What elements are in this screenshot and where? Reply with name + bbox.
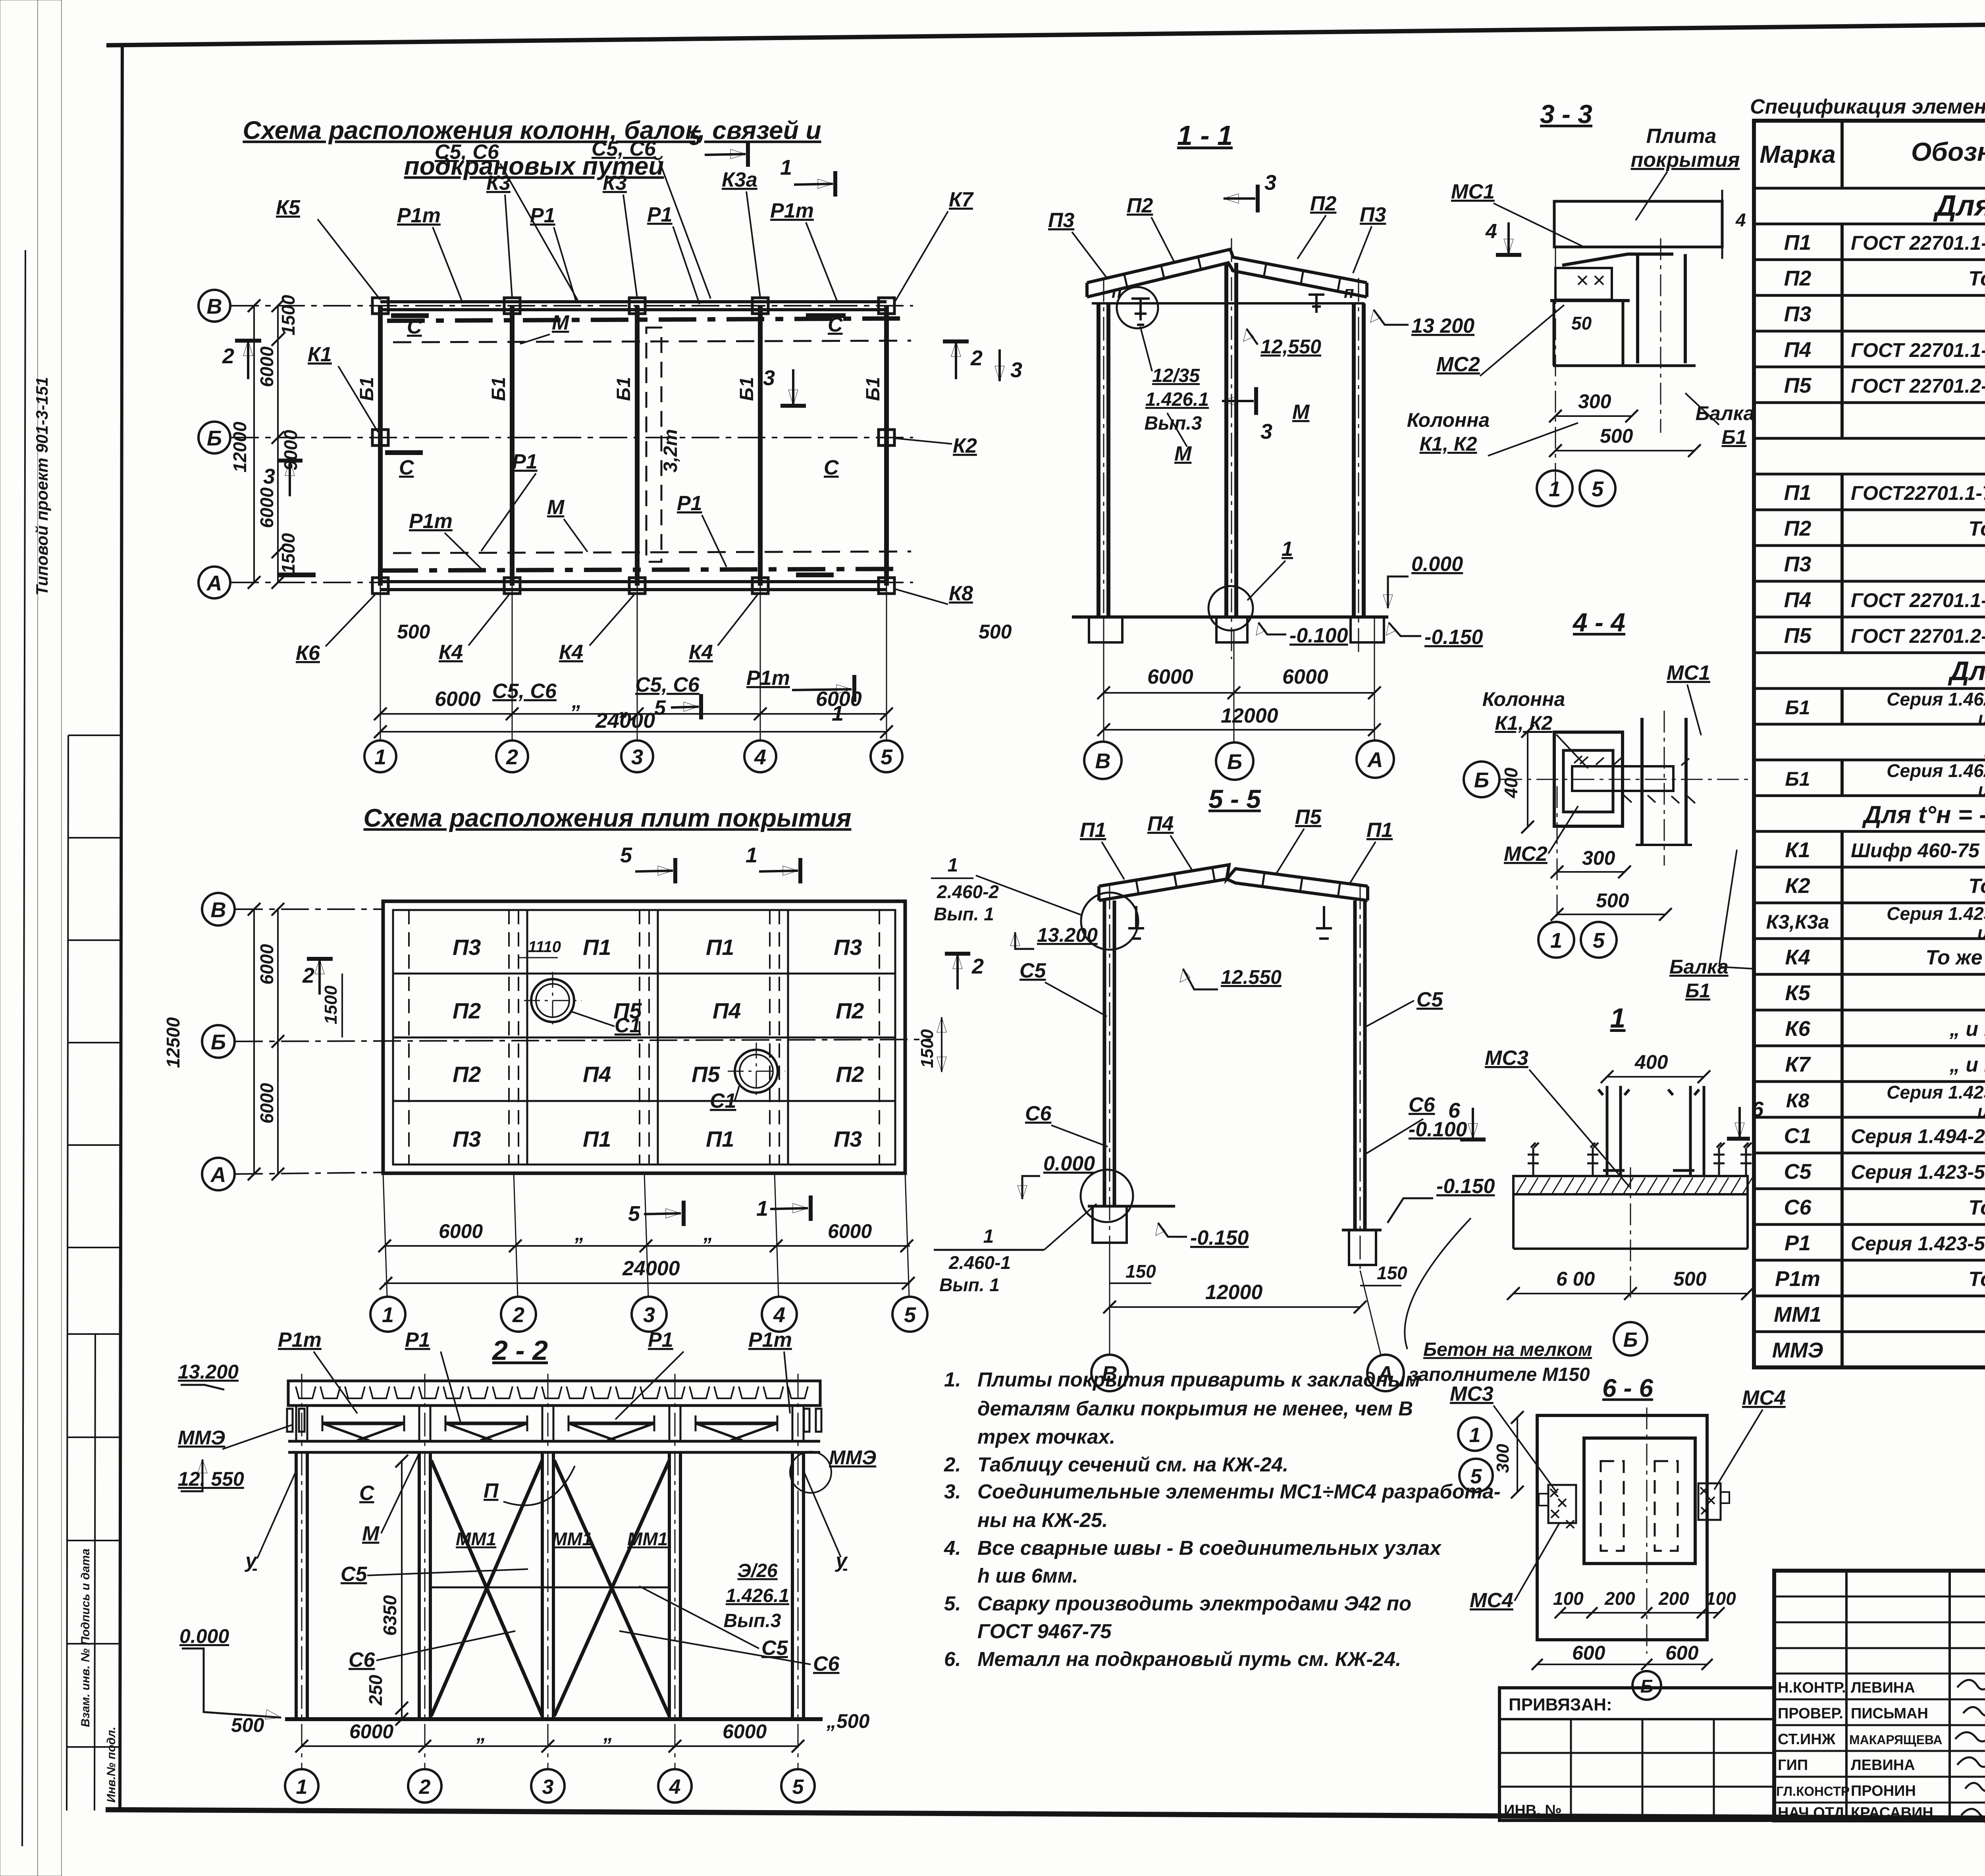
svg-text:4: 4 xyxy=(1485,220,1497,243)
section 5-5 axis extensions xyxy=(1109,1251,1110,1355)
section 2-2 axis circle 1 xyxy=(285,1769,318,1803)
svg-text:ММ1: ММ1 xyxy=(627,1529,668,1549)
svg-text:ПИСЬМАН: ПИСЬМАН xyxy=(1851,1705,1928,1722)
sheet edge line far left xyxy=(22,250,25,1846)
svg-text:1110: 1110 xyxy=(528,938,561,956)
svg-text:Б1: Б1 xyxy=(1785,768,1810,790)
section 3-3 dim 300 xyxy=(1555,415,1632,417)
svg-text:П1: П1 xyxy=(1784,481,1812,505)
svg-text:2 - 2: 2 - 2 xyxy=(491,1335,548,1366)
svg-text:500: 500 xyxy=(1600,425,1633,447)
svg-text:ГИП: ГИП xyxy=(1778,1757,1808,1774)
svg-text:1: 1 xyxy=(948,855,958,876)
svg-text:3: 3 xyxy=(763,366,775,390)
svg-text:Плита: Плита xyxy=(1646,125,1717,148)
svg-text:250: 250 xyxy=(365,1675,386,1706)
svg-text:300: 300 xyxy=(1578,390,1611,413)
plan2 slab row lines xyxy=(393,974,895,1101)
svg-text:ЛЕВИНА: ЛЕВИНА xyxy=(1851,1757,1915,1774)
section 1-1 right column xyxy=(1352,303,1356,617)
svg-text:0.000: 0.000 xyxy=(1043,1152,1095,1175)
svg-text:600: 600 xyxy=(1572,1642,1605,1664)
section 1-1 node circle at base xyxy=(1208,586,1253,630)
svg-text:Б: Б xyxy=(211,1030,226,1054)
svg-text:Серия 1.423-5 Вып. 3: Серия 1.423-5 Вып. 3 xyxy=(1851,1232,1985,1255)
section 5-5 hanger ties below roof xyxy=(1128,906,1144,939)
svg-text:ГОСТ 22701.1-77: ГОСТ 22701.1-77 xyxy=(1851,589,1985,611)
section 2-2 axis circle 2 xyxy=(408,1769,441,1803)
svg-text:600: 600 xyxy=(1665,1642,1699,1664)
section 2-2 longitudinal beam xyxy=(288,1440,820,1443)
svg-text:Б1: Б1 xyxy=(357,377,378,401)
svg-text:КРАСАВИН: КРАСАВИН xyxy=(1851,1805,1933,1821)
scanner shading left edge xyxy=(0,0,38,1876)
node 1 axis circle Б xyxy=(1614,1322,1647,1355)
plan2 axis circle 2 xyxy=(501,1297,536,1332)
svg-text:ГОСТ 22701.1-77 и КЖ-11: ГОСТ 22701.1-77 и КЖ-11 xyxy=(1851,232,1985,254)
svg-text:П1: П1 xyxy=(1366,819,1393,842)
svg-text:Б: Б xyxy=(1640,1676,1654,1697)
svg-text:„500: „500 xyxy=(826,1710,870,1732)
svg-text:К6: К6 xyxy=(1785,1017,1810,1041)
section 5-5 ground/footing left xyxy=(1088,1205,1175,1208)
svg-text:П5: П5 xyxy=(692,1062,720,1087)
svg-text:П4: П4 xyxy=(713,998,741,1023)
svg-text:100: 100 xyxy=(1553,1588,1584,1609)
svg-text:150: 150 xyxy=(1377,1263,1407,1283)
svg-text:Б1: Б1 xyxy=(488,377,509,401)
section 4-4 column square inner xyxy=(1563,750,1613,812)
section 2-2 mid tie xyxy=(431,1587,669,1589)
svg-text:А: А xyxy=(206,571,222,595)
svg-text:12/35: 12/35 xyxy=(1152,365,1200,386)
svg-text:деталям балки покрытия не: деталям балки покрытия не менее, чем В xyxy=(977,1397,1413,1420)
svg-text:К4: К4 xyxy=(439,641,463,664)
node 1 foundation top hatched band xyxy=(1513,1176,1748,1194)
section 4-4 axis circles 1 5 xyxy=(1538,922,1574,958)
section 6-6 dashed beam flanges xyxy=(1601,1461,1624,1551)
svg-text:Инв.№ подл.: Инв.№ подл. xyxy=(105,1727,118,1803)
svg-text:„ и КЖ-11: „ и КЖ-11 xyxy=(1949,1018,1985,1041)
svg-text:Р1: Р1 xyxy=(512,450,538,473)
svg-text:6000: 6000 xyxy=(1147,665,1193,688)
plan1 crane runway dashed line bottom (M) xyxy=(393,551,911,553)
svg-text:А: А xyxy=(1367,748,1383,772)
section 4-4 axis dash-dot Б xyxy=(1500,779,1755,780)
svg-text:3: 3 xyxy=(542,1776,554,1799)
svg-text:С6: С6 xyxy=(1784,1195,1812,1219)
svg-text:1: 1 xyxy=(746,843,757,867)
svg-text:Балка: Балка xyxy=(1696,402,1755,424)
section 1-1 dimension extensions xyxy=(1104,617,1374,742)
svg-text:трех точках.: трех точках. xyxy=(977,1425,1115,1448)
section 6-6 hatched connector left xyxy=(1548,1485,1576,1523)
svg-text:ГОСТ 22701.2-77: ГОСТ 22701.2-77 xyxy=(1851,375,1985,397)
plan2 axis circle 1 xyxy=(370,1297,405,1332)
svg-text:Р1т: Р1т xyxy=(397,204,441,227)
svg-text:МС4: МС4 xyxy=(1470,1589,1513,1612)
section 6-6 dims 100 200 200 100 xyxy=(1560,1612,1719,1614)
section 5-5 axis circle В xyxy=(1091,1355,1128,1391)
svg-text:П3: П3 xyxy=(1784,302,1812,326)
svg-text:С6: С6 xyxy=(813,1652,840,1675)
plan1 longitudinal beam line row В xyxy=(380,300,887,303)
section 1-1 node circle at eaves xyxy=(1117,287,1158,328)
svg-text:Р1т: Р1т xyxy=(1775,1267,1820,1291)
plan1 longitudinal beam line row А xyxy=(380,580,887,583)
svg-text:П1: П1 xyxy=(706,935,734,960)
svg-text:2: 2 xyxy=(222,344,234,368)
svg-text:Для t°н = -20°С; t°н = -30°С: Для t°н = -20°С; t°н = -30°С xyxy=(1948,656,1985,686)
svg-text:ММ1: ММ1 xyxy=(1774,1303,1821,1327)
section 5-5 dim 12000 xyxy=(1110,1306,1360,1308)
plan1 axis circle 3 xyxy=(621,740,653,772)
section 4-4 axis circle Б xyxy=(1464,762,1499,797)
section 6-6 hatched connector right xyxy=(1698,1483,1721,1520)
svg-text:П1: П1 xyxy=(583,1126,611,1151)
svg-text:П: П xyxy=(484,1479,499,1502)
section 3-3 column body xyxy=(1553,301,1555,366)
svg-text:П3: П3 xyxy=(453,1126,481,1151)
svg-text:„: „ xyxy=(476,1723,486,1745)
svg-text:1: 1 xyxy=(1610,1003,1626,1033)
svg-text:Н.КОНТР.: Н.КОНТР. xyxy=(1778,1679,1846,1696)
plan1 axis circle 1 xyxy=(364,740,396,772)
svg-text:А: А xyxy=(210,1163,226,1187)
section 2-2 ground line xyxy=(285,1717,823,1721)
section 4-4 axis vertical dash-dot xyxy=(1557,786,1558,921)
plan1 axis circle Б xyxy=(198,422,230,453)
svg-text:5: 5 xyxy=(792,1776,804,1799)
svg-text:С6: С6 xyxy=(1025,1102,1052,1125)
node 1 foundation body xyxy=(1512,1194,1515,1249)
svg-text:Схема расположения колонн, бал: Схема расположения колонн, балок, связей… xyxy=(243,116,821,145)
svg-text:С5, С6: С5, С6 xyxy=(635,673,700,696)
svg-text:МС1: МС1 xyxy=(1451,180,1495,203)
svg-text:К3,К3а: К3,К3а xyxy=(1766,911,1829,933)
svg-text:3: 3 xyxy=(1264,171,1276,195)
svg-text:Б1: Б1 xyxy=(613,377,634,401)
svg-text:Обозначение: Обозначение xyxy=(1911,137,1985,166)
svg-text:12. 550: 12. 550 xyxy=(178,1468,244,1490)
svg-text:заполнителе М150: заполнителе М150 xyxy=(1409,1364,1590,1385)
svg-text:С: С xyxy=(407,315,422,338)
svg-text:МС2: МС2 xyxy=(1504,843,1548,866)
svg-text:П1: П1 xyxy=(1784,231,1812,255)
svg-text:24000: 24000 xyxy=(622,1257,680,1280)
svg-text:и КЖ-11: и КЖ-11 xyxy=(1978,779,1985,800)
svg-text:6000: 6000 xyxy=(723,1720,767,1743)
plan2 axis circle В xyxy=(202,893,235,925)
svg-text:С5: С5 xyxy=(1019,959,1046,982)
svg-text:Р1: Р1 xyxy=(677,492,702,515)
svg-text:5: 5 xyxy=(1593,929,1605,952)
svg-text:С5: С5 xyxy=(1784,1160,1812,1184)
svg-text:В: В xyxy=(207,295,222,318)
svg-text:1: 1 xyxy=(983,1226,994,1247)
svg-text:Для t°н = -20°С; t°н = -30°С;: Для t°н = -20°С; t°н = -30°С; tн° = -40°… xyxy=(1862,801,1985,829)
svg-text:Б: Б xyxy=(207,426,222,450)
frame bottom border xyxy=(106,1810,1985,1821)
svg-text:12,550: 12,550 xyxy=(1260,335,1321,358)
svg-text:К7: К7 xyxy=(949,188,974,211)
svg-text:То же: То же xyxy=(1968,875,1985,898)
svg-text:п: п xyxy=(1344,283,1354,301)
svg-text:3: 3 xyxy=(631,745,643,769)
svg-text:5: 5 xyxy=(904,1303,916,1327)
section 6-6 center axis dash-dot xyxy=(1646,1407,1648,1654)
svg-text:Шифр 460-75 Вып.1-1 и КЖ10: Шифр 460-75 Вып.1-1 и КЖ10 xyxy=(1851,839,1985,862)
section 5-5 column axes dash-dot xyxy=(1110,885,1360,1271)
svg-text:13.200: 13.200 xyxy=(178,1361,239,1383)
section 4-4 beam section right xyxy=(1640,718,1644,845)
plan2 axis circle Б xyxy=(202,1025,235,1058)
svg-text:П2: П2 xyxy=(453,998,481,1023)
svg-text:П4: П4 xyxy=(583,1062,611,1087)
svg-text:Р1: Р1 xyxy=(405,1328,430,1352)
section 4-4 column square outer xyxy=(1554,732,1623,826)
svg-text:1: 1 xyxy=(1282,538,1293,561)
svg-text:Серия 1.462-3 Вып. 1: Серия 1.462-3 Вып. 1 xyxy=(1887,760,1985,781)
svg-text:К5: К5 xyxy=(1785,981,1810,1005)
svg-text:Серия 1.423-5 Вып. 1: Серия 1.423-5 Вып. 1 xyxy=(1887,903,1985,924)
plan2 left dim lines xyxy=(277,909,279,1174)
section 2-2 ММЭ end connectors xyxy=(287,1409,821,1432)
svg-text:То же: То же xyxy=(1968,1268,1985,1291)
svg-text:2.: 2. xyxy=(944,1453,961,1476)
svg-text:12000: 12000 xyxy=(1221,704,1278,727)
svg-text:5: 5 xyxy=(628,1202,640,1226)
svg-text:-0.100: -0.100 xyxy=(1289,624,1348,647)
svg-text:Р1: Р1 xyxy=(647,203,673,226)
plan1 bottom dimension line 6000s xyxy=(380,713,887,715)
svg-text:6: 6 xyxy=(1752,1097,1764,1121)
section 2-2 cross brace С6 bay 3-4 xyxy=(554,1460,669,1716)
svg-text:-0.150: -0.150 xyxy=(1436,1175,1495,1198)
svg-text:К1: К1 xyxy=(308,343,332,366)
svg-text:5: 5 xyxy=(620,843,632,867)
section 1-1 dimension line 6000+6000 xyxy=(1104,692,1374,694)
svg-text:5: 5 xyxy=(654,696,666,719)
svg-text:ГОСТ 9467-75: ГОСТ 9467-75 xyxy=(977,1620,1112,1643)
svg-text:П2: П2 xyxy=(453,1062,481,1087)
svg-text:и КЖ-10: и КЖ-10 xyxy=(1977,922,1985,943)
section 1-1 roof slab joints xyxy=(1124,257,1340,291)
section 1-1 anchor symbol right xyxy=(1309,295,1324,313)
section 2-2 axis circle 5 xyxy=(781,1769,815,1803)
svg-text:Марка: Марка xyxy=(1760,141,1835,168)
table vertical column lines xyxy=(1842,121,1985,1367)
svg-text:Взам. инв. № Подпись и дата: Взам. инв. № Подпись и дата xyxy=(79,1548,92,1727)
frame left border xyxy=(120,44,122,1810)
signature rows: roles xyxy=(1776,1679,1943,1821)
svg-text:1500: 1500 xyxy=(278,295,299,335)
svg-text:4: 4 xyxy=(669,1776,681,1799)
plan2 axis dash-dot lines xyxy=(235,909,931,1174)
svg-text:Б: Б xyxy=(1623,1328,1638,1352)
svg-text:П3: П3 xyxy=(1048,209,1074,232)
plan1 axis circle 2 xyxy=(496,740,528,772)
plan1 axis dash-dot lines В Б А xyxy=(231,306,913,582)
svg-text:„: „ xyxy=(571,690,582,713)
svg-text:М: М xyxy=(362,1522,380,1545)
section 5-5 axis circle А xyxy=(1367,1355,1404,1391)
svg-text:Типовой проект 901-3-151: Типовой проект 901-3-151 xyxy=(33,377,51,596)
plan2 axis vertical extensions xyxy=(383,1173,909,1297)
svg-text:П3: П3 xyxy=(1360,203,1386,226)
svg-text:3,2т: 3,2т xyxy=(660,429,681,472)
svg-text:ГОСТ 22701.2-77: ГОСТ 22701.2-77 xyxy=(1851,625,1985,647)
section 3-3 axis circles 1 5 xyxy=(1537,470,1573,506)
plan2 dimension line 6000s xyxy=(384,1245,910,1247)
svg-text:-0.150: -0.150 xyxy=(1424,626,1483,649)
svg-text:К3а: К3а xyxy=(722,168,757,191)
plan1 bottom dimension line 24000 xyxy=(380,731,887,733)
svg-text:1: 1 xyxy=(382,1303,394,1327)
svg-text:ны на КЖ-25.: ны на КЖ-25. xyxy=(977,1509,1108,1531)
svg-text:С: С xyxy=(824,456,839,479)
section 2-2 vertical dim 6350 250 xyxy=(401,1461,403,1719)
svg-text:Б1: Б1 xyxy=(1785,696,1810,719)
svg-text:К2: К2 xyxy=(953,434,977,457)
section 3-3 axis dash-dot xyxy=(1555,246,1556,482)
svg-text:Спецификация элементов к марки: Спецификация элементов к маркировочным с… xyxy=(1750,95,1985,118)
section 3-3 bent connector plate МС2 xyxy=(1562,254,1673,265)
svg-text:С1: С1 xyxy=(615,1014,641,1037)
plan2 slab joint dashed verticals xyxy=(409,910,879,1165)
section 2-2 top-zone bracing bars xyxy=(322,1422,404,1425)
svg-text:Э/26: Э/26 xyxy=(737,1560,778,1581)
svg-text:П4: П4 xyxy=(1784,588,1812,612)
section 1-1 roof slab (gable) xyxy=(1087,249,1367,297)
svg-text:500: 500 xyxy=(1673,1268,1707,1290)
svg-text:5: 5 xyxy=(689,126,701,150)
section 2-2 cross brace С6 bay 2-3 xyxy=(431,1460,542,1716)
svg-text:24000: 24000 xyxy=(595,709,655,733)
section 6-6 axis circle Б xyxy=(1632,1671,1661,1700)
svg-text:Вып. 1: Вып. 1 xyxy=(934,904,994,924)
svg-text:1: 1 xyxy=(1469,1424,1481,1447)
section 6-6 inner box xyxy=(1584,1438,1695,1564)
svg-text:ГОСТ22701.1-77 и КЖ-11: ГОСТ22701.1-77 и КЖ-11 xyxy=(1851,482,1985,504)
svg-text:Серия 1.423-5 Вып. 1: Серия 1.423-5 Вып. 1 xyxy=(1887,1082,1985,1103)
section 2-2 bottom dimension line xyxy=(302,1745,798,1747)
svg-text:2: 2 xyxy=(512,1303,524,1327)
svg-text:Вып.3: Вып.3 xyxy=(723,1610,781,1631)
svg-text:1: 1 xyxy=(780,156,792,179)
svg-text:ПРИВЯЗАН:: ПРИВЯЗАН: xyxy=(1509,1695,1612,1714)
svg-text:К4: К4 xyxy=(689,641,713,664)
section 2-2 column stubs in top zone xyxy=(296,1406,804,1441)
svg-text:Р1т: Р1т xyxy=(746,667,790,690)
svg-text:6.: 6. xyxy=(944,1648,961,1670)
svg-text:К5: К5 xyxy=(276,196,301,219)
table horizontal row lines xyxy=(1754,188,1985,1367)
plan1 crane runway dashed line top (M) xyxy=(393,341,911,342)
svg-text:5: 5 xyxy=(1470,1465,1482,1488)
section 5-5 roof slabs gable xyxy=(1099,865,1368,900)
svg-text:5.: 5. xyxy=(944,1592,961,1615)
svg-text:К2: К2 xyxy=(1785,874,1810,898)
svg-text:h шв 6мм.: h шв 6мм. xyxy=(977,1564,1078,1587)
section 1-1 footings xyxy=(1089,617,1384,642)
section 5-5 right column xyxy=(1353,900,1357,1230)
svg-text:П3: П3 xyxy=(834,935,862,960)
plan1 axis vertical extensions to dimension line xyxy=(380,586,887,741)
svg-text:400: 400 xyxy=(1634,1051,1668,1073)
node 1 anchor bolts xyxy=(1528,1143,1539,1176)
svg-text:6 - 6: 6 - 6 xyxy=(1602,1374,1653,1402)
svg-text:П2: П2 xyxy=(836,1062,864,1087)
svg-text:и КЖ-11: и КЖ-11 xyxy=(1978,708,1985,729)
plan1 axis circle В xyxy=(198,290,230,322)
svg-text:0.000: 0.000 xyxy=(179,1625,229,1647)
section 6-6 axis circles 1 5 xyxy=(1458,1417,1492,1451)
section 2-2 axis circle 4 xyxy=(658,1769,692,1803)
svg-text:П2: П2 xyxy=(1784,266,1812,290)
plan2 slab joint solid verticals xyxy=(527,910,788,1165)
svg-text:ИНВ. №: ИНВ. № xyxy=(1504,1802,1562,1819)
svg-text:С5, С6: С5, С6 xyxy=(435,141,499,164)
svg-text:6 00: 6 00 xyxy=(1556,1268,1595,1290)
svg-text:Плиты покрытия приварить к: Плиты покрытия приварить к закладным xyxy=(977,1368,1420,1391)
section 6-6 outer box xyxy=(1537,1415,1707,1640)
svg-text:Р1т: Р1т xyxy=(770,199,814,222)
svg-text:К8: К8 xyxy=(949,582,973,605)
svg-text:4: 4 xyxy=(773,1303,785,1327)
svg-text:Серия 1.462-3 Вып. 1: Серия 1.462-3 Вып. 1 xyxy=(1887,689,1985,710)
section 2-2 axis circle 3 xyxy=(531,1769,565,1803)
plan1 left dimension line xyxy=(277,306,279,582)
plan2 axis circle 5 xyxy=(892,1297,927,1332)
svg-text:С6: С6 xyxy=(1409,1093,1436,1116)
plan2 axis circle А xyxy=(202,1158,235,1190)
svg-text:6000: 6000 xyxy=(256,346,277,387)
svg-text:300: 300 xyxy=(1582,847,1615,869)
section 2-2 roof slab strip xyxy=(288,1381,820,1406)
svg-text:С1: С1 xyxy=(710,1089,736,1112)
svg-text:К4: К4 xyxy=(1785,945,1810,969)
svg-text:4: 4 xyxy=(754,745,766,769)
svg-text:у: у xyxy=(834,1549,848,1572)
svg-text:Металл на подкрановый путь: Металл на подкрановый путь см. КЖ-24. xyxy=(977,1648,1401,1670)
svg-text:ГЛ.КОНСТР: ГЛ.КОНСТР xyxy=(1776,1784,1850,1799)
svg-text:1: 1 xyxy=(756,1197,768,1220)
svg-text:1.426.1: 1.426.1 xyxy=(1145,389,1209,410)
svg-text:ЛЕВИНА: ЛЕВИНА xyxy=(1851,1679,1915,1696)
svg-text:13 200: 13 200 xyxy=(1411,314,1474,337)
svg-text:Р1т: Р1т xyxy=(278,1328,322,1352)
svg-text:200: 200 xyxy=(1658,1588,1689,1609)
svg-text:Колонна: Колонна xyxy=(1407,409,1490,431)
svg-text:ММ1: ММ1 xyxy=(456,1529,496,1549)
svg-text:12000: 12000 xyxy=(1205,1281,1263,1304)
svg-text:400: 400 xyxy=(1501,767,1521,798)
table outer frame xyxy=(1754,121,1985,1367)
svg-text:К4: К4 xyxy=(559,641,583,664)
svg-text:12500: 12500 xyxy=(163,1017,183,1068)
section 5-5 node circle bottom left xyxy=(1081,1170,1133,1222)
title block outer frame xyxy=(1774,1571,1985,1820)
section 1-1 dimension line 12000 xyxy=(1104,729,1374,731)
plan2 opening С1 circle lower xyxy=(735,1050,778,1093)
svg-text:П5: П5 xyxy=(1784,374,1812,397)
svg-text:П5: П5 xyxy=(1295,806,1322,829)
svg-text:6000: 6000 xyxy=(1282,665,1328,688)
svg-text:6000: 6000 xyxy=(828,1220,872,1242)
section 6-6 dims 600 600 xyxy=(1537,1664,1707,1665)
section 1-1 axis circle Б xyxy=(1216,742,1253,780)
